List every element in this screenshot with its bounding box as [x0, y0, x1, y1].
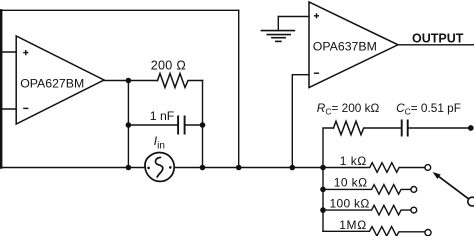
wire U1 noninverting input stub: [1, 51, 16, 53]
junction ladder node dot: [320, 165, 326, 171]
ground bar 4: [276, 40, 281, 42]
plus sign U1: [23, 50, 28, 55]
resistor 100 kOhm row: [323, 205, 411, 215]
minus sign U2: [314, 72, 319, 74]
wire U1 output to node A: [104, 80, 158, 82]
svg-text:200 Ω: 200 Ω: [151, 59, 186, 73]
wire top branch vertical at node C: [238, 10, 240, 167]
current source Iin circle: [145, 152, 174, 181]
wire U2 inverting input branch: [292, 75, 309, 168]
switch contact 10k: [411, 187, 417, 193]
junction node B-cap dot: [200, 122, 206, 128]
wire capacitor row left: [128, 124, 177, 126]
resistor 1 kOhm row: [323, 163, 425, 173]
junction node B-bottom dot: [200, 165, 206, 171]
junction 100k branch dot: [320, 207, 326, 213]
ground bar 3: [272, 37, 285, 39]
wire CC to output node: [408, 127, 469, 129]
ground bar 2: [267, 34, 290, 36]
wire top rail: [1, 9, 239, 11]
wire node B vertical: [202, 81, 204, 168]
current source terminal dot left: [147, 167, 150, 170]
junction output feedback dot: [468, 125, 474, 131]
wire ladder vertical: [322, 168, 324, 232]
capacitor 1 nF plates: [178, 117, 185, 134]
junction node A dot: [126, 78, 132, 84]
wire U1 inverting input stub: [1, 108, 16, 110]
switch common contact: [468, 197, 474, 206]
resistor RC 200 kOhm: [334, 121, 401, 134]
current source waveform squiggle: [155, 157, 162, 176]
wire RC row riser: [323, 128, 334, 168]
junction node A-bottom dot: [126, 165, 132, 171]
switch contact 100k: [411, 207, 417, 213]
svg-text:100 kΩ: 100 kΩ: [330, 197, 370, 211]
op-amp U1 OPA627BM triangle: [16, 36, 104, 124]
wire U2 noninverting input: [278, 16, 309, 18]
svg-text:OUTPUT: OUTPUT: [412, 32, 464, 46]
wire node A vertical: [127, 81, 129, 168]
junction node C dot: [236, 165, 242, 171]
svg-text:10 kΩ: 10 kΩ: [334, 176, 368, 190]
svg-text:1 nF: 1 nF: [150, 109, 175, 123]
svg-text:OPA637BM: OPA637BM: [313, 39, 377, 53]
capacitor CC 0.51 pF plates: [402, 121, 408, 136]
resistor 200 Ohm: [158, 74, 203, 88]
resistor 10 kOhm row: [323, 185, 411, 195]
wire left rail: [0, 10, 2, 167]
wire bottom rail left: [0, 167, 145, 169]
switch contact 1k: [425, 165, 431, 171]
junction node A-cap dot: [126, 122, 132, 128]
ground bar 1: [261, 30, 294, 32]
wire capacitor row right: [185, 124, 202, 126]
minus sign U1: [23, 107, 28, 109]
svg-text:1 kΩ: 1 kΩ: [340, 154, 367, 168]
svg-text:OPA627BM: OPA627BM: [20, 77, 84, 91]
junction 10k branch dot: [320, 187, 326, 193]
op-amp U2 OPA637BM triangle: [309, 2, 398, 88]
switch contact 1M: [425, 230, 431, 236]
plus sign U2: [314, 13, 319, 18]
resistor 1 MOhm row: [323, 227, 425, 237]
switch wiper shaft: [439, 177, 469, 199]
current source terminal dot right: [169, 166, 172, 169]
junction node D dot: [290, 165, 296, 171]
ground stub: [277, 17, 279, 31]
wire U2 output: [398, 44, 474, 46]
svg-text:1MΩ: 1MΩ: [339, 218, 367, 232]
switch wiper arrowhead: [433, 172, 441, 179]
wire bottom rail right of source: [174, 167, 323, 169]
